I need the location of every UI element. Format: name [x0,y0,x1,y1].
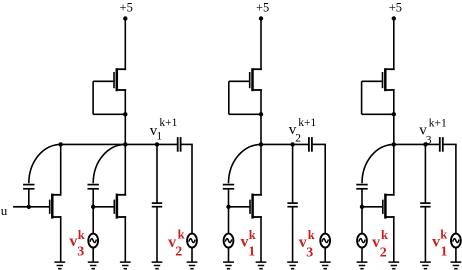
svg-text:u: u [1,203,8,218]
svg-text:1: 1 [156,130,162,142]
svg-text:v: v [432,233,440,250]
svg-text:k+1: k+1 [429,118,447,130]
svg-text:3: 3 [77,245,84,260]
svg-text:k: k [249,228,256,242]
svg-text:1: 1 [248,245,255,260]
svg-text:3: 3 [426,134,432,146]
svg-text:k: k [178,228,185,242]
svg-text:+5: +5 [256,0,269,14]
svg-text:2: 2 [175,244,182,259]
svg-text:k: k [381,228,388,242]
svg-text:1: 1 [441,245,448,260]
svg-text:+5: +5 [389,0,402,14]
svg-text:v: v [241,233,249,250]
svg-text:3: 3 [306,245,313,260]
svg-text:k: k [308,228,315,242]
svg-text:k: k [78,228,85,242]
svg-text:+5: +5 [120,0,133,14]
svg-text:v: v [69,233,77,250]
svg-text:k: k [440,227,447,241]
svg-text:2: 2 [295,133,301,145]
svg-text:2: 2 [380,245,387,260]
svg-text:k+1: k+1 [298,117,316,129]
svg-text:k+1: k+1 [159,117,177,129]
